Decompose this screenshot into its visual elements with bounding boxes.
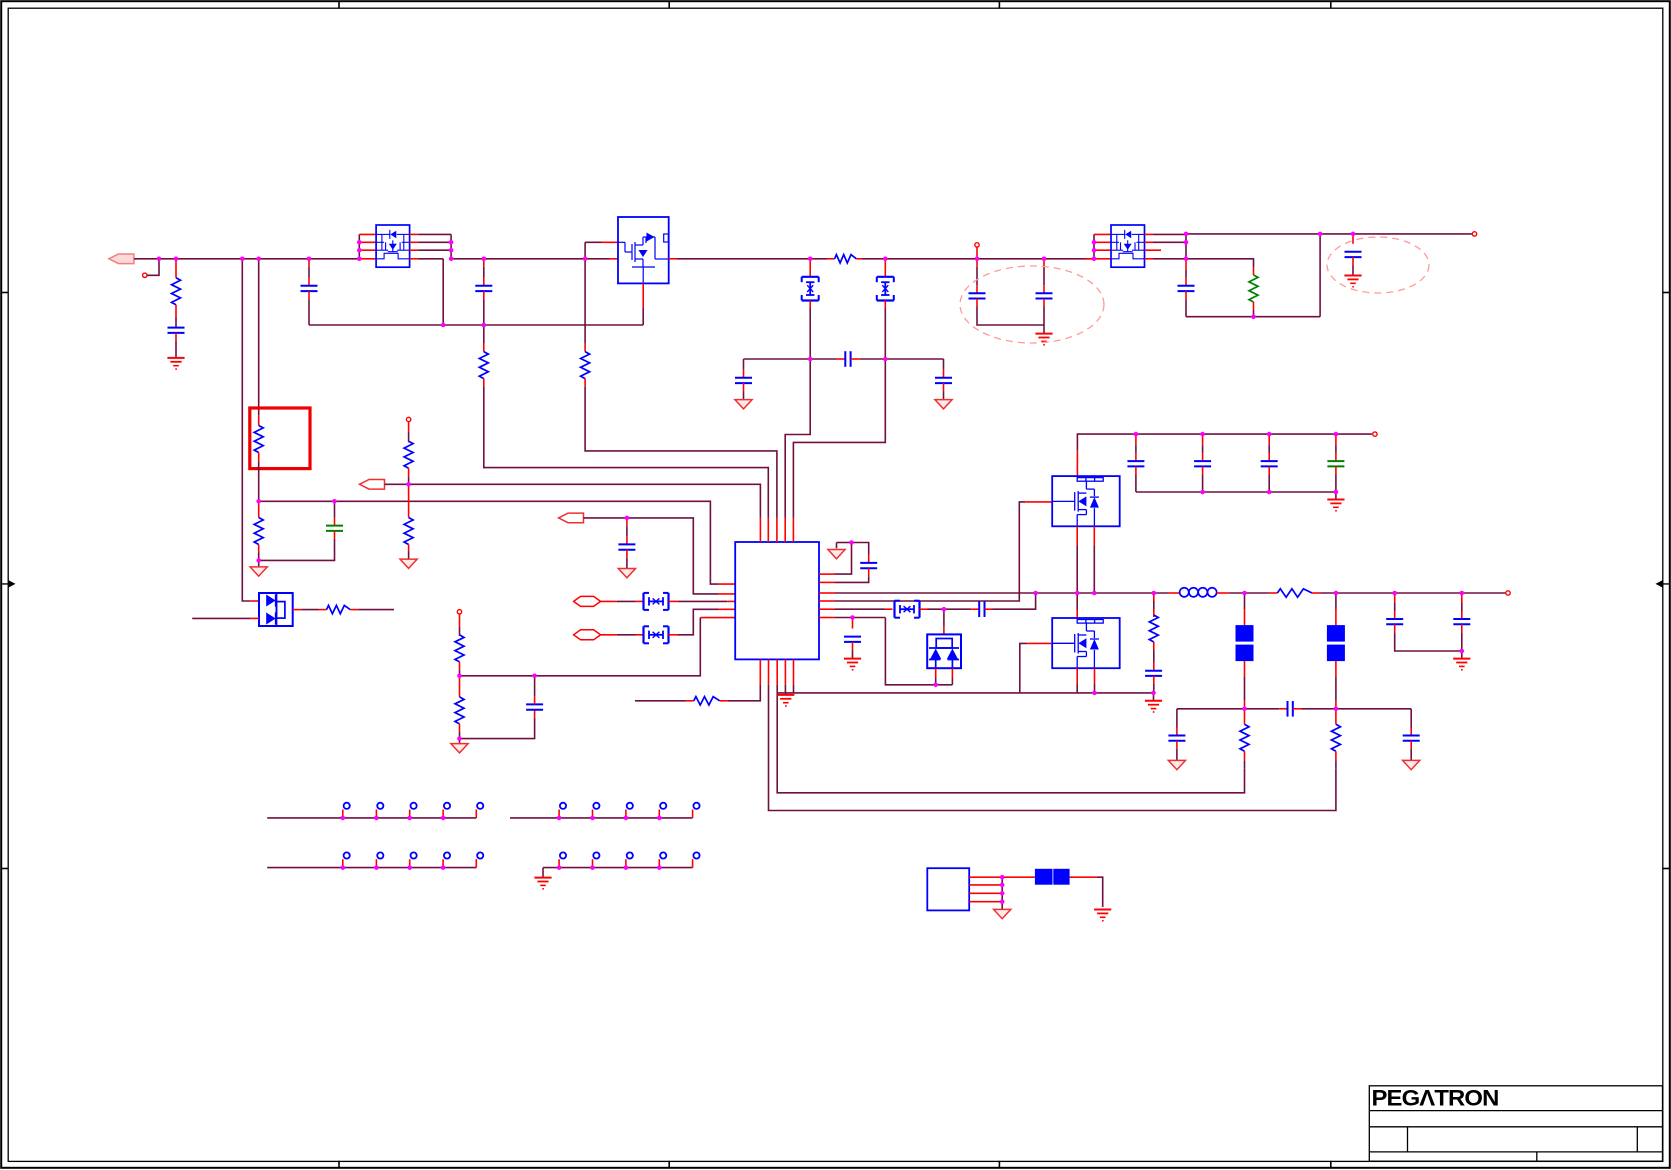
pin circle J6: [1373, 432, 1377, 436]
resistor R17: [1335, 709, 1337, 725]
wire pgnd bus segment: [1020, 692, 1154, 694]
connector pin: [442, 810, 444, 818]
ground GND3: [935, 400, 952, 409]
capacitor C2: [308, 259, 310, 267]
wire boot node: [835, 543, 852, 575]
wire switch rail y=593: [835, 592, 1169, 594]
wire U2 to beads: [1002, 876, 1035, 878]
bead block FB6: [1035, 869, 1053, 885]
wire Q4 source pins to switch rail: [1076, 526, 1078, 546]
wire switch rail to output: [1229, 592, 1270, 594]
ground GND4: [1043, 325, 1045, 334]
connector arrow A3: [559, 513, 584, 523]
ferrite bead FB1: [809, 259, 811, 277]
wire R13 left: [635, 700, 686, 702]
capacitor C26: [1461, 593, 1463, 603]
wire Q3 right pin column: [1145, 233, 1154, 235]
connector pin: [692, 859, 694, 867]
TVS pack D2: [927, 634, 961, 668]
ground GND17: [1461, 651, 1463, 659]
wire snubber to switch rail: [993, 593, 1036, 609]
wire pin B5 link: [793, 685, 795, 693]
wire FB5 to snubber: [928, 608, 972, 610]
wire vertical feed x=259 to red box: [258, 259, 260, 416]
wire Q1 right pin column: [410, 233, 419, 235]
capacitor C21 snub: [1153, 650, 1155, 663]
wire pin-L2 line: [584, 518, 719, 594]
wire to R5 green: [1186, 259, 1254, 267]
ferrite bead FB3: [642, 593, 644, 610]
wire R10 right: [358, 609, 394, 611]
resistor R4: [827, 258, 835, 260]
wire gate feed line y=501: [259, 501, 718, 584]
input connector arrow P1: [109, 254, 134, 264]
resistor R1: [175, 259, 177, 278]
connector pin: [375, 810, 377, 818]
ferrite bead FB5: [885, 608, 893, 610]
wire TVS bottom pins: [935, 668, 937, 678]
ferrite bead FB2: [884, 259, 886, 277]
IC U1: [735, 542, 819, 659]
capacitor C13: [460, 718, 535, 739]
wire R6 to divider node: [258, 462, 260, 501]
wire output rail top right: [1186, 233, 1472, 235]
connector pin: [409, 859, 411, 867]
ground GND8: [618, 569, 635, 578]
wire Q1 left pin column: [358, 234, 360, 258]
wire Q2 right pin: [669, 258, 677, 260]
connector pin: [592, 810, 594, 818]
ground GND11: [844, 658, 861, 660]
resistor R10: [293, 609, 302, 611]
polarized cap PC1: [1244, 593, 1246, 609]
capacitor C22 series: [1279, 708, 1287, 710]
pin circle J2: [975, 243, 979, 247]
wire FB7 to gnd: [1070, 876, 1097, 878]
ground GND14: [1153, 693, 1155, 701]
capacitor C7: [976, 259, 978, 267]
resistor R9: [408, 484, 410, 517]
wire Q1 gate drop: [442, 259, 444, 325]
capacitor C3: [483, 259, 485, 267]
wire Q2 bottom pin: [642, 283, 644, 308]
pin circle J4: [406, 417, 410, 421]
capacitor bank C17-C19 and C20 green: [1135, 434, 1137, 445]
wire pin R4 to Q4 gate: [835, 502, 1025, 601]
ground GND18: [994, 909, 1011, 918]
capacitor C24: [1410, 709, 1412, 728]
wire Q5 source pins to pgnd: [1076, 668, 1078, 684]
wire connector row: [267, 867, 476, 869]
IC U2: [927, 868, 969, 910]
transistor Q2: [618, 217, 669, 283]
wire FB2 riser to pin E: [793, 359, 885, 518]
transistor Q5: [1052, 618, 1120, 668]
ground GND7: [400, 559, 417, 568]
wire feedback bus y=709: [1177, 708, 1279, 710]
wire Q2 gate column: [584, 242, 586, 343]
pin circle J5: [457, 610, 461, 614]
wire gate line y=325: [309, 324, 643, 326]
pin circle J1: [143, 273, 147, 277]
ground GND15: [1168, 760, 1185, 769]
bead block FB7: [1053, 869, 1069, 885]
pin circle J3: [1472, 232, 1476, 236]
connector pin: [592, 859, 594, 867]
transistor Q4: [1052, 476, 1120, 526]
wire bypass line y=359: [744, 358, 837, 360]
wire feedback bottom y=317: [1186, 316, 1320, 318]
capacitor C8: [1043, 259, 1045, 267]
ground GND19: [1094, 909, 1111, 911]
resistor R15: [1269, 592, 1277, 594]
resistor R8: [408, 422, 410, 432]
capacitor C16: [852, 618, 854, 629]
wire pin R5 to FB5: [835, 608, 885, 610]
wire pin-L5 line: [700, 617, 735, 619]
ground GND5: [1344, 275, 1361, 277]
wire FB3 to IC pin L3: [669, 600, 679, 602]
ground GND6: [258, 560, 260, 567]
capacitor C15 snubber: [971, 608, 979, 610]
ground GND16: [1403, 760, 1420, 769]
capacitor C10: [1352, 234, 1354, 244]
polarized cap PC2: [1335, 593, 1337, 609]
wire R2 to pin-B line: [484, 387, 769, 518]
wire AGND bus y=693: [777, 692, 1020, 694]
IC U1 right pin stubs: [819, 573, 835, 575]
wire main input rail: [134, 258, 360, 260]
wire Q5 gate: [1020, 643, 1028, 693]
IC U1 bottom pin stubs: [759, 659, 761, 684]
capacitor C4 series: [837, 358, 846, 360]
pin circle J7: [1506, 591, 1510, 595]
capacitor C6: [943, 359, 945, 370]
diode pack D1: [259, 593, 293, 626]
resistor R14 snub: [1153, 593, 1155, 601]
wire rail stub into Q2: [610, 258, 619, 260]
connector pin: [558, 810, 560, 818]
transistor Q1: [376, 225, 410, 267]
capacitor C25: [1394, 593, 1396, 603]
wire FB1 to C-line: [809, 309, 811, 360]
wire pin-A line y=484: [385, 484, 761, 518]
wire U2 pins: [969, 876, 1002, 878]
connector pin: [475, 859, 477, 867]
junction dots: [157, 257, 162, 262]
capacitor C14 boot: [852, 543, 869, 555]
capacitor C1: [175, 318, 177, 328]
wire output rail: [1320, 592, 1506, 594]
ground GND9: [459, 739, 461, 744]
wire C25 bottom: [1395, 632, 1462, 651]
connector pin: [658, 810, 660, 818]
wire R3 to pin-C line: [585, 387, 777, 518]
dashed ellipse E2: [1327, 237, 1429, 293]
net connector N2: [574, 630, 601, 640]
inductor L1: [1169, 592, 1180, 594]
resistor R7: [258, 501, 260, 517]
wire Q5 drain from switch rail: [1076, 593, 1078, 610]
capacitor C12: [626, 518, 628, 527]
resistor R13: [694, 697, 720, 705]
wire C11 to gnd node: [259, 539, 335, 561]
wire pin B4 link: [784, 685, 786, 693]
ground GND2: [735, 400, 752, 409]
capacitor C23: [1176, 709, 1178, 728]
ground GND13: [1335, 492, 1337, 500]
resistor R5: [1253, 267, 1255, 275]
connector pin: [409, 810, 411, 818]
wire FB2 to C-line: [884, 309, 886, 360]
wire connector row: [510, 817, 693, 819]
wire pin B1 to R13: [728, 685, 761, 701]
highlight red box: [250, 408, 310, 469]
connector pin: [692, 810, 694, 818]
wire C7 bottom: [977, 307, 1044, 326]
wire FB4 to IC pin L4: [669, 634, 679, 636]
wire Q3 left pin column: [1093, 234, 1095, 258]
dashed ellipse E1: [960, 266, 1104, 343]
ground GND10 flag: [828, 550, 845, 559]
connector pin: [625, 810, 627, 818]
ground GND1: [167, 357, 184, 359]
ferrite bead FB4: [642, 626, 644, 643]
capacitor C11 green: [334, 501, 336, 517]
wire D1 pin2: [192, 617, 251, 619]
wire FB1 riser to pin D: [785, 359, 810, 518]
connector pin: [442, 859, 444, 867]
title block: [1369, 1086, 1662, 1161]
resistor R3: [584, 344, 586, 352]
wire cap bank bottom bus: [1136, 491, 1336, 493]
svg-text:PEGΛTRON: PEGΛTRON: [1372, 1086, 1499, 1111]
wire pin B3 long to right: [776, 685, 778, 693]
wire rail segment right of Q1 pins: [418, 258, 443, 260]
resistor R2: [483, 325, 485, 344]
wire from J1 to rail: [147, 259, 159, 276]
wire connector row: [543, 867, 693, 869]
resistor R12: [459, 676, 461, 697]
connector pin: [558, 859, 560, 867]
wire TVS top feed: [943, 609, 945, 626]
wire rail right of R4: [861, 258, 1094, 260]
ground GND12: [785, 693, 787, 695]
wire N2 to FB4: [601, 634, 617, 636]
resistor R11: [459, 614, 461, 627]
connector arrow A2: [360, 480, 385, 490]
connector pin: [375, 859, 377, 867]
connector pin: [342, 859, 344, 867]
wire connector row: [267, 817, 476, 819]
wire top power rail: [1077, 434, 1372, 451]
connector pin: [342, 810, 344, 818]
ground GND row: [542, 868, 544, 878]
wire C2 to gate line: [308, 299, 310, 325]
transistor Q3: [1111, 225, 1145, 267]
wire N1 to FB3: [601, 600, 617, 602]
wire pin R6 line: [835, 617, 885, 619]
wire C14 to pin R2: [835, 576, 869, 582]
wire TVS bottom bus: [885, 618, 952, 685]
IC U1 top pin stubs: [759, 518, 761, 542]
resistor R16: [1244, 709, 1246, 725]
wire rail from Q1 output column: [451, 258, 609, 260]
capacitor C9: [1185, 259, 1187, 270]
capacitor C5: [743, 359, 745, 370]
wire pin B2 long to right: [769, 685, 1336, 811]
connector pin: [658, 859, 660, 867]
net connector N1: [574, 596, 601, 606]
wire rail right of Q2: [677, 258, 827, 260]
connector pin: [475, 810, 477, 818]
wire vertical feed x=242: [242, 259, 251, 601]
wire feedback riser x=1320: [1319, 234, 1321, 317]
resistor R6: [258, 416, 260, 426]
connector pin: [625, 859, 627, 867]
